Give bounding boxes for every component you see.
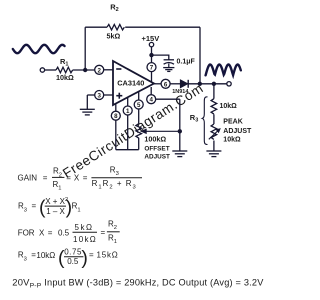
svg-text:R1: R1: [72, 202, 81, 214]
output waveform: [206, 65, 241, 76]
wire feedback top right: [125, 26, 200, 28]
svg-text:=: =: [48, 228, 53, 237]
formula for x: [18, 220, 120, 246]
op-amp U1 CA3140: [113, 61, 154, 105]
+15V terminal: [149, 42, 153, 46]
svg-text:100kΩ: 100kΩ: [144, 135, 166, 144]
svg-text:0.1μF: 0.1μF: [177, 59, 196, 66]
formula gain: [18, 166, 143, 192]
svg-text:R1: R1: [60, 57, 68, 68]
svg-text:10kΩ: 10kΩ: [220, 103, 238, 110]
svg-text:5: 5: [137, 102, 141, 109]
pin 2: [95, 65, 104, 74]
brace R3: [202, 97, 207, 145]
svg-text:CA3140: CA3140: [117, 78, 144, 87]
wire pin2 to opamp: [104, 69, 114, 71]
wire pot to ground: [213, 141, 215, 151]
svg-text:R3: R3: [190, 113, 198, 124]
pin 5: [134, 100, 143, 109]
svg-text:0.5: 0.5: [58, 228, 70, 237]
svg-text:FreeCircuitDiagram.Com: FreeCircuitDiagram.Com: [60, 81, 206, 181]
svg-text:3: 3: [97, 93, 101, 100]
wire pin8 down: [115, 120, 117, 150]
svg-text:0.5: 0.5: [67, 257, 79, 266]
ground pin3: [80, 109, 95, 115]
svg-text:R3: R3: [110, 166, 119, 178]
potentiometer offset 100k: [136, 124, 142, 138]
svg-text:=: =: [43, 173, 48, 182]
svg-text:=: =: [32, 202, 37, 211]
svg-text:OFFSET: OFFSET: [144, 146, 169, 153]
svg-text:R2: R2: [108, 220, 117, 232]
ground peak pot: [206, 151, 221, 157]
svg-text:5kΩ: 5kΩ: [107, 31, 121, 40]
svg-text:ADJUST: ADJUST: [144, 153, 170, 160]
wire pin6 to diode: [170, 83, 181, 85]
formula R3 value: [18, 247, 119, 269]
svg-text:): ): [81, 247, 88, 269]
pin 8: [111, 111, 120, 120]
wire pot bottom: [138, 138, 140, 150]
ground pin4: [172, 151, 187, 157]
input sine wave: [13, 45, 65, 53]
svg-text:R3: R3: [18, 251, 27, 263]
svg-text:7: 7: [150, 65, 154, 72]
stub pin1: [127, 98, 129, 107]
svg-text:X: X: [39, 228, 45, 237]
wire feedback up: [84, 27, 86, 70]
svg-text:15kΩ: 15kΩ: [97, 251, 119, 260]
stub pin8: [115, 104, 117, 112]
node feedback output: [198, 82, 202, 86]
wire load node down: [213, 84, 215, 99]
svg-text:R2: R2: [110, 2, 118, 13]
pin 7: [147, 63, 156, 72]
wire pin3 down: [86, 95, 88, 109]
wire +15V down: [151, 47, 153, 63]
svg-text:X: X: [74, 173, 80, 182]
svg-text:0.75: 0.75: [64, 248, 82, 257]
svg-text:=: =: [101, 228, 106, 237]
diode D1 1N914: [180, 80, 188, 88]
node junction feedback: [83, 68, 87, 72]
svg-text:10kΩ: 10kΩ: [73, 235, 97, 244]
resistor R1: [56, 67, 73, 73]
wire feedback top left: [85, 26, 107, 28]
svg-text:1N914: 1N914: [172, 89, 189, 95]
svg-text:6: 6: [164, 81, 168, 88]
svg-text:R1: R1: [53, 180, 62, 192]
svg-text:R3: R3: [18, 202, 27, 214]
svg-text:R1: R1: [108, 233, 117, 245]
svg-text:8: 8: [114, 113, 118, 120]
potentiometer peak adjust: [211, 124, 217, 139]
svg-text:10kΩ: 10kΩ: [223, 137, 241, 144]
wire diode to output: [188, 83, 227, 85]
svg-text:=: =: [66, 173, 71, 182]
stub pin4: [150, 87, 152, 95]
wire input to R1: [45, 69, 56, 71]
pin 3: [95, 91, 104, 100]
wire pin4 right: [156, 98, 180, 100]
input terminal: [40, 68, 44, 72]
stub pin5: [138, 92, 140, 100]
svg-text:10kΩ: 10kΩ: [56, 73, 74, 82]
wire offset bus: [116, 149, 139, 151]
svg-text:=: =: [83, 173, 88, 182]
wire pin5 down: [138, 109, 140, 124]
wire to capacitor: [152, 55, 169, 59]
svg-text:=: =: [89, 251, 94, 260]
wire pin7 to opamp: [151, 71, 153, 82]
wire feedback down: [199, 27, 201, 84]
svg-text:GAIN: GAIN: [18, 173, 38, 182]
pin 1: [123, 106, 132, 115]
plus sign: [116, 93, 122, 99]
capacitor C1 0.1uF: [164, 60, 174, 68]
minus sign: [116, 68, 121, 70]
svg-text:2: 2: [97, 67, 101, 74]
wiper arrow offset: [141, 129, 180, 133]
ground capacitor: [163, 68, 174, 72]
svg-text:5kΩ: 5kΩ: [75, 223, 94, 232]
wire resistor to pot: [213, 114, 215, 124]
node wiper: [178, 129, 182, 133]
wire apex to pin6: [154, 83, 162, 85]
pin 6: [161, 79, 170, 88]
svg-text:FOR: FOR: [18, 228, 35, 237]
pot arrow: [209, 129, 220, 140]
wire pin1 down: [127, 115, 129, 150]
wire pin4 down: [179, 99, 181, 151]
svg-text:20VP-P Input BW (-3dB) = 290kH: 20VP-P Input BW (-3dB) = 290kHz, DC Outp…: [12, 277, 264, 290]
svg-text:ADJUST: ADJUST: [223, 128, 252, 135]
svg-text:1 – X: 1 – X: [46, 207, 65, 216]
svg-text:1: 1: [126, 108, 130, 115]
svg-text:4: 4: [149, 97, 153, 104]
wire R1 to pin2: [73, 69, 95, 71]
formula R3: [18, 196, 81, 218]
svg-text:+15V: +15V: [142, 34, 160, 43]
node supply: [149, 53, 153, 57]
output terminal: [227, 82, 231, 86]
resistor 10k fixed: [211, 99, 217, 114]
wire pin3 to opamp: [104, 94, 114, 96]
svg-text:10kΩ: 10kΩ: [36, 251, 55, 260]
svg-text:PEAK: PEAK: [223, 119, 242, 126]
resistor R2: [107, 24, 124, 30]
pin 4: [147, 95, 156, 104]
wire pin3 left: [87, 94, 95, 96]
svg-text:R1R2 + R3: R1R2 + R3: [92, 179, 137, 191]
node load: [212, 82, 216, 86]
